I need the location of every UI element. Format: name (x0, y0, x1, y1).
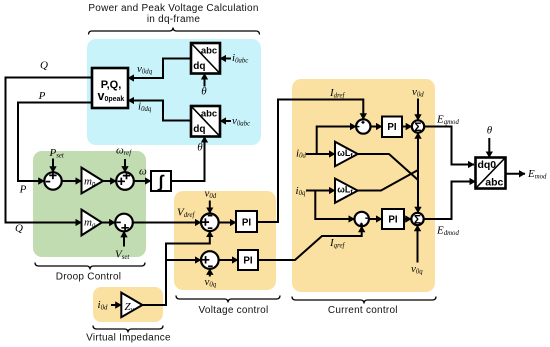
svg-text:PI: PI (388, 214, 398, 225)
svg-text:dq: dq (193, 61, 205, 72)
svg-text:Current control: Current control (328, 305, 398, 316)
svg-text:Power and Peak Voltage Calcula: Power and Peak Voltage Calculation (88, 3, 258, 14)
svg-text:Virtual Impedance: Virtual Impedance (86, 333, 171, 344)
svg-text:dq0: dq0 (477, 159, 496, 171)
svg-text:Voltage control: Voltage control (199, 305, 269, 316)
svg-text:P: P (38, 90, 46, 102)
svg-text:Q: Q (40, 60, 48, 72)
svg-text:PI: PI (242, 217, 252, 228)
svg-text:θ: θ (201, 86, 207, 98)
svg-text:PI: PI (243, 255, 253, 266)
svg-text:Σ: Σ (414, 120, 421, 134)
svg-text:Q: Q (15, 223, 23, 235)
svg-text:θ: θ (487, 125, 493, 137)
svg-text:θ: θ (197, 142, 203, 154)
svg-text:abc: abc (201, 109, 217, 120)
svg-text:dq: dq (193, 124, 205, 135)
svg-text:abc: abc (201, 46, 217, 57)
svg-text:Σ: Σ (414, 212, 421, 226)
svg-text:Droop Control: Droop Control (56, 272, 122, 283)
svg-text:PI: PI (387, 122, 397, 133)
svg-text:in dq-frame: in dq-frame (147, 14, 201, 25)
svg-text:abc: abc (485, 177, 503, 189)
svg-text:ω: ω (139, 166, 147, 178)
svg-text:P: P (19, 184, 27, 196)
